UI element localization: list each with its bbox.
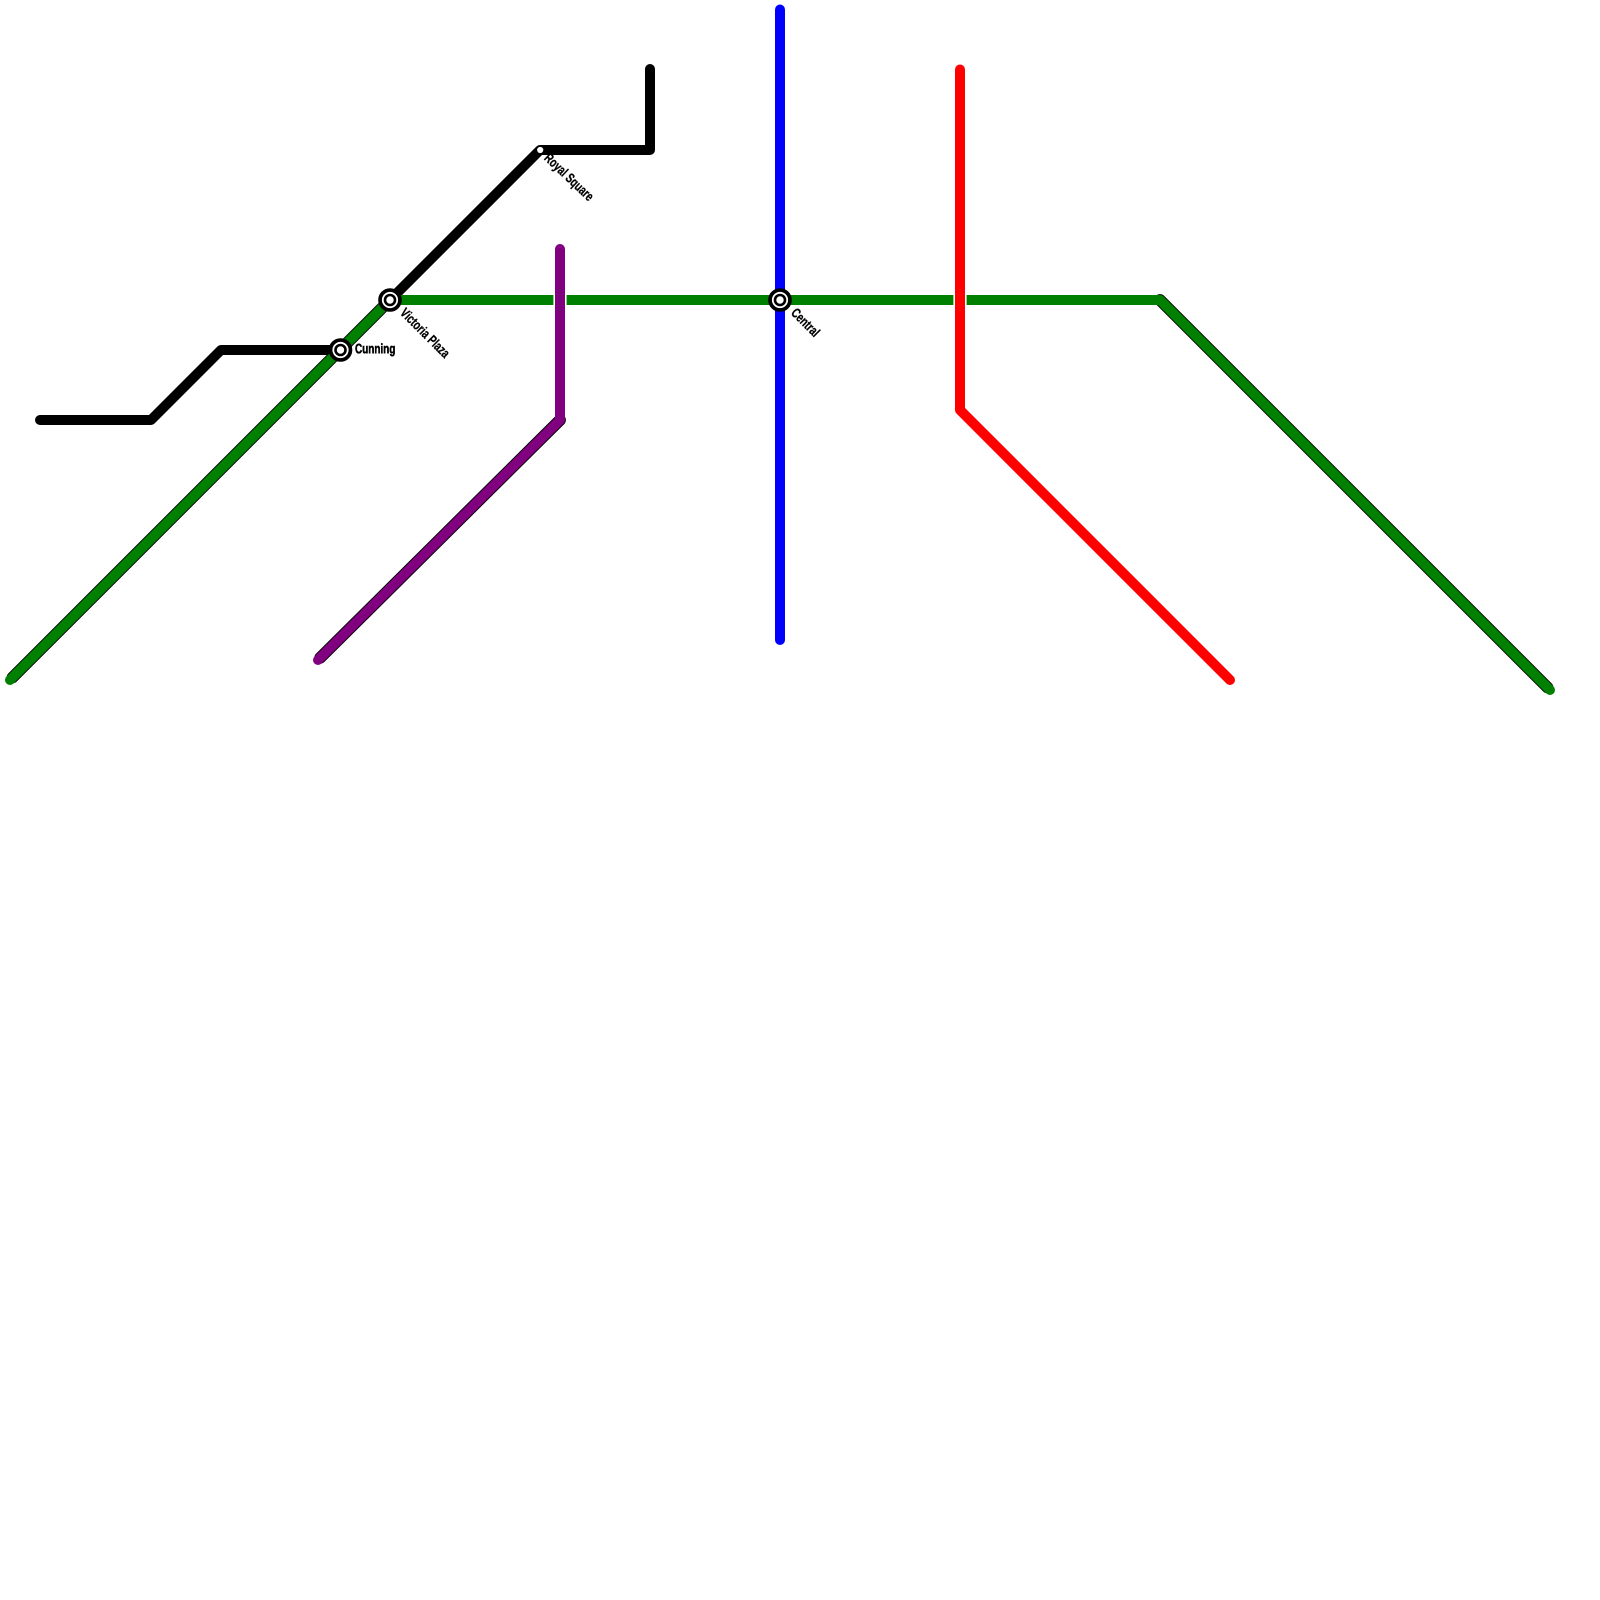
station Royal Square (small stop dot) [537,147,543,153]
black metro line: main diagonal Cunning - Victoria Plaza - Royal Square, then east and north [340,69,650,350]
green metro line: southwest diagonal, central horizontal, southeast diagonal [10,300,1550,690]
label Central (rotated 45deg) [790,307,820,337]
dark edge fringe under green SE diagonal [1160,300,1548,688]
label Victoria Plaza (rotated 45deg) [399,307,451,359]
red metro line: vertical then southeast diagonal [960,70,1230,681]
blue metro line: vertical through Central [775,10,785,641]
white casing of purple line [318,249,560,660]
white casing of blue line [773,10,786,641]
label Cunning [355,343,394,356]
black metro line: west zigzag branch to Cunning [40,350,340,420]
label Royal Square (rotated 45deg) [542,152,595,203]
white casing of red line [960,70,1230,681]
station Victoria Plaza (interchange marker) [380,290,400,310]
station Cunning (interchange marker) [331,340,351,360]
station Central (interchange marker) [770,290,790,310]
purple metro line: vertical then southwest diagonal [318,249,560,660]
dark edge fringe under purple diagonal [320,420,560,658]
dark edge fringe under green SW diagonal [13,300,391,678]
